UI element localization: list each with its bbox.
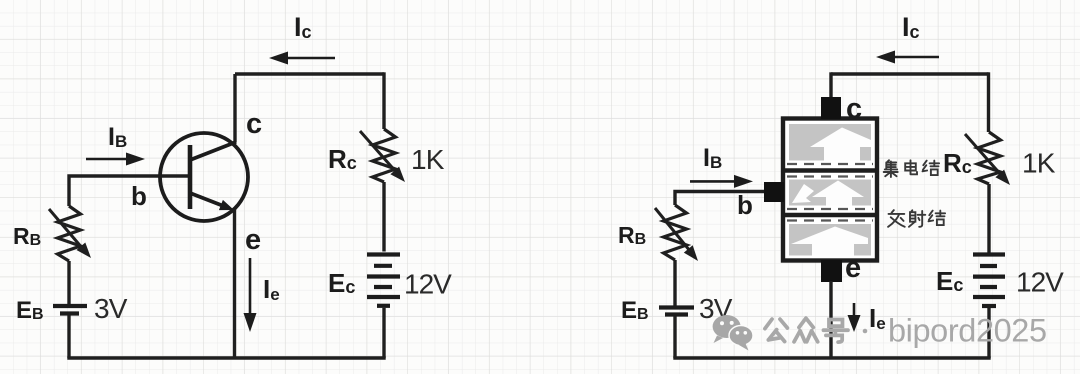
label EB right	[621, 297, 649, 324]
resistor RC2 zigzag with arrow (1K, right circuit)	[965, 132, 1010, 185]
svg-text:c: c	[246, 108, 262, 140]
wire bottom rail left circuit	[67, 356, 385, 359]
middle section gray	[789, 180, 871, 206]
battery EB2 (3V, right circuit)	[659, 308, 694, 315]
junction 1 dashed+solid lines	[787, 163, 873, 165]
wire emitter vertical right circuit	[829, 281, 832, 358]
base tab right	[764, 182, 784, 202]
label 12V left	[404, 269, 452, 300]
junction 2 dashed+solid lines	[787, 208, 873, 210]
label 3V left	[94, 293, 128, 324]
current arrow IB right	[690, 175, 753, 188]
label Ic left	[294, 12, 312, 42]
bottom section gray	[789, 224, 871, 256]
wire Rc to Ec left	[382, 182, 385, 252]
bottom section white arrow	[791, 227, 868, 256]
wire RB to EB left	[67, 261, 70, 304]
current arrow IB left	[86, 153, 145, 166]
wire collector vertical left circuit	[233, 74, 236, 143]
svg-text:c: c	[846, 93, 862, 125]
resistor RB1 zigzag with arrow (left circuit)	[49, 206, 91, 261]
svg-text:b: b	[131, 181, 147, 211]
watermark middle dot	[863, 329, 868, 334]
label junction2 Chinese 发射结	[888, 210, 945, 227]
current arrow Ie right	[848, 303, 861, 332]
label 3V right	[699, 293, 733, 324]
wire bottom rail right circuit	[673, 356, 990, 359]
svg-text:e: e	[845, 252, 861, 284]
label e right	[845, 252, 861, 284]
label EB left	[16, 297, 44, 324]
label Rc right	[943, 148, 972, 178]
label b left	[131, 181, 147, 211]
top section white arrow	[810, 128, 871, 161]
wire RB to EB right	[673, 260, 676, 306]
label Ec right	[936, 266, 963, 296]
label IB left	[108, 123, 127, 151]
wire Ec to bottom rail right	[987, 308, 990, 358]
current arrow Ic left	[269, 52, 335, 65]
label e left	[245, 224, 261, 256]
label Rc left	[328, 144, 357, 174]
current arrow Ic right	[876, 51, 939, 64]
watermark latin text	[888, 313, 1047, 349]
svg-text:12V: 12V	[404, 269, 452, 300]
wire EB to bottom rail right	[673, 317, 676, 359]
label c left	[246, 108, 262, 140]
middle big white arrow	[812, 181, 864, 206]
label 1K left	[411, 144, 445, 175]
wire base rail left circuit	[67, 174, 188, 206]
label Ic right	[902, 12, 920, 42]
wire EB to bottom rail left	[67, 316, 70, 359]
svg-text:bipord2025: bipord2025	[888, 313, 1047, 349]
label IB right	[703, 144, 722, 172]
wire right branch upper right circuit	[987, 72, 990, 132]
battery EC2 (12V, right circuit)	[973, 255, 1005, 307]
wire Ec to bottom rail left	[382, 308, 385, 358]
battery EB1 (3V, left circuit)	[53, 306, 87, 314]
label 12V right	[1016, 267, 1064, 298]
label Ec left	[328, 268, 355, 298]
label Ie right	[869, 303, 886, 333]
wire emitter vertical left circuit	[233, 209, 236, 358]
label RB right	[618, 222, 646, 248]
transistor block U1 (junction diagram)	[783, 119, 877, 261]
svg-text:1K: 1K	[1022, 148, 1056, 179]
middle small white arrow	[792, 184, 814, 203]
label b right	[737, 190, 753, 220]
battery EC1 (12V, left circuit)	[367, 255, 400, 306]
svg-text:12V: 12V	[1016, 267, 1064, 298]
wire base rail right circuit	[673, 190, 765, 205]
label RB left	[13, 223, 41, 249]
svg-text:e: e	[245, 224, 261, 256]
current arrow Ie left	[244, 258, 257, 332]
label 1K right	[1022, 148, 1056, 179]
resistor RB2 zigzag with arrow (right circuit)	[655, 205, 698, 261]
transistor Q1 (NPN symbol)	[160, 133, 248, 221]
wire right branch upper (top rail to Rc)	[382, 72, 385, 129]
svg-text:3V: 3V	[94, 293, 128, 324]
wire Rc to Ec right	[987, 184, 990, 253]
top section gray	[789, 124, 871, 161]
svg-text:b: b	[737, 190, 753, 220]
resistor RC1 zigzag with arrow (1K, left circuit)	[360, 129, 405, 182]
label junction1 Chinese 集电结	[884, 160, 939, 177]
wire collector stub right circuit	[829, 72, 832, 98]
svg-text:1K: 1K	[411, 144, 445, 175]
watermark wechat icon	[713, 315, 753, 351]
watermark text 公众号·bipord2025	[765, 318, 848, 342]
collector tab right	[821, 97, 841, 119]
label Ie left	[263, 274, 280, 304]
label c right	[846, 93, 862, 125]
emitter tab right	[821, 260, 842, 282]
wire top rail right circuit	[831, 72, 989, 75]
wire top rail left circuit	[235, 72, 384, 75]
